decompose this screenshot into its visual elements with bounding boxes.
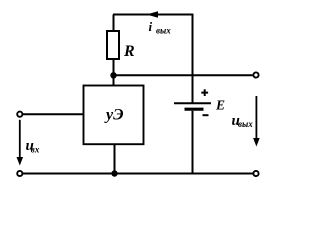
label i_vyh <box>149 19 172 36</box>
svg-text:вых: вых <box>156 26 171 36</box>
wire block bottom stub <box>114 144 116 173</box>
wire bottom horizontal <box>22 173 253 175</box>
arrow u_vh (input voltage, pointing down) <box>17 120 24 166</box>
node junction on bottom wire <box>111 170 117 176</box>
battery E negative plate (short thick) <box>185 108 204 111</box>
svg-text:вых: вых <box>238 119 253 129</box>
wire resistor top stub <box>113 15 115 32</box>
terminal input bottom <box>17 171 22 176</box>
label - (battery negative) <box>203 114 209 116</box>
op-amp block UE (controlled element) <box>84 86 144 145</box>
wire right vertical upper <box>192 14 194 103</box>
wire output top horizontal <box>114 74 253 76</box>
svg-text:R: R <box>123 43 135 60</box>
svg-text:вх: вх <box>31 144 40 154</box>
terminal output bottom <box>253 171 258 176</box>
node junction below resistor <box>110 72 116 78</box>
arrow u_vyh (output voltage, pointing down) <box>253 96 260 147</box>
wire resistor bottom stub <box>113 59 115 86</box>
resistor R <box>107 31 119 59</box>
svg-text:уЭ: уЭ <box>104 107 124 124</box>
label u_vh <box>26 138 40 155</box>
terminal input top <box>17 112 22 117</box>
svg-text:i: i <box>149 19 153 34</box>
wire input horizontal <box>22 113 83 115</box>
wire top horizontal <box>113 14 193 16</box>
wire right vertical lower <box>192 111 194 174</box>
label u_vyh <box>232 113 254 129</box>
terminal output top <box>253 72 258 77</box>
battery E positive plate (long) <box>174 102 211 104</box>
label + (battery positive) <box>201 89 208 96</box>
arrow i_vyh (current direction, pointing left) <box>147 11 159 18</box>
svg-text:E: E <box>215 98 225 113</box>
